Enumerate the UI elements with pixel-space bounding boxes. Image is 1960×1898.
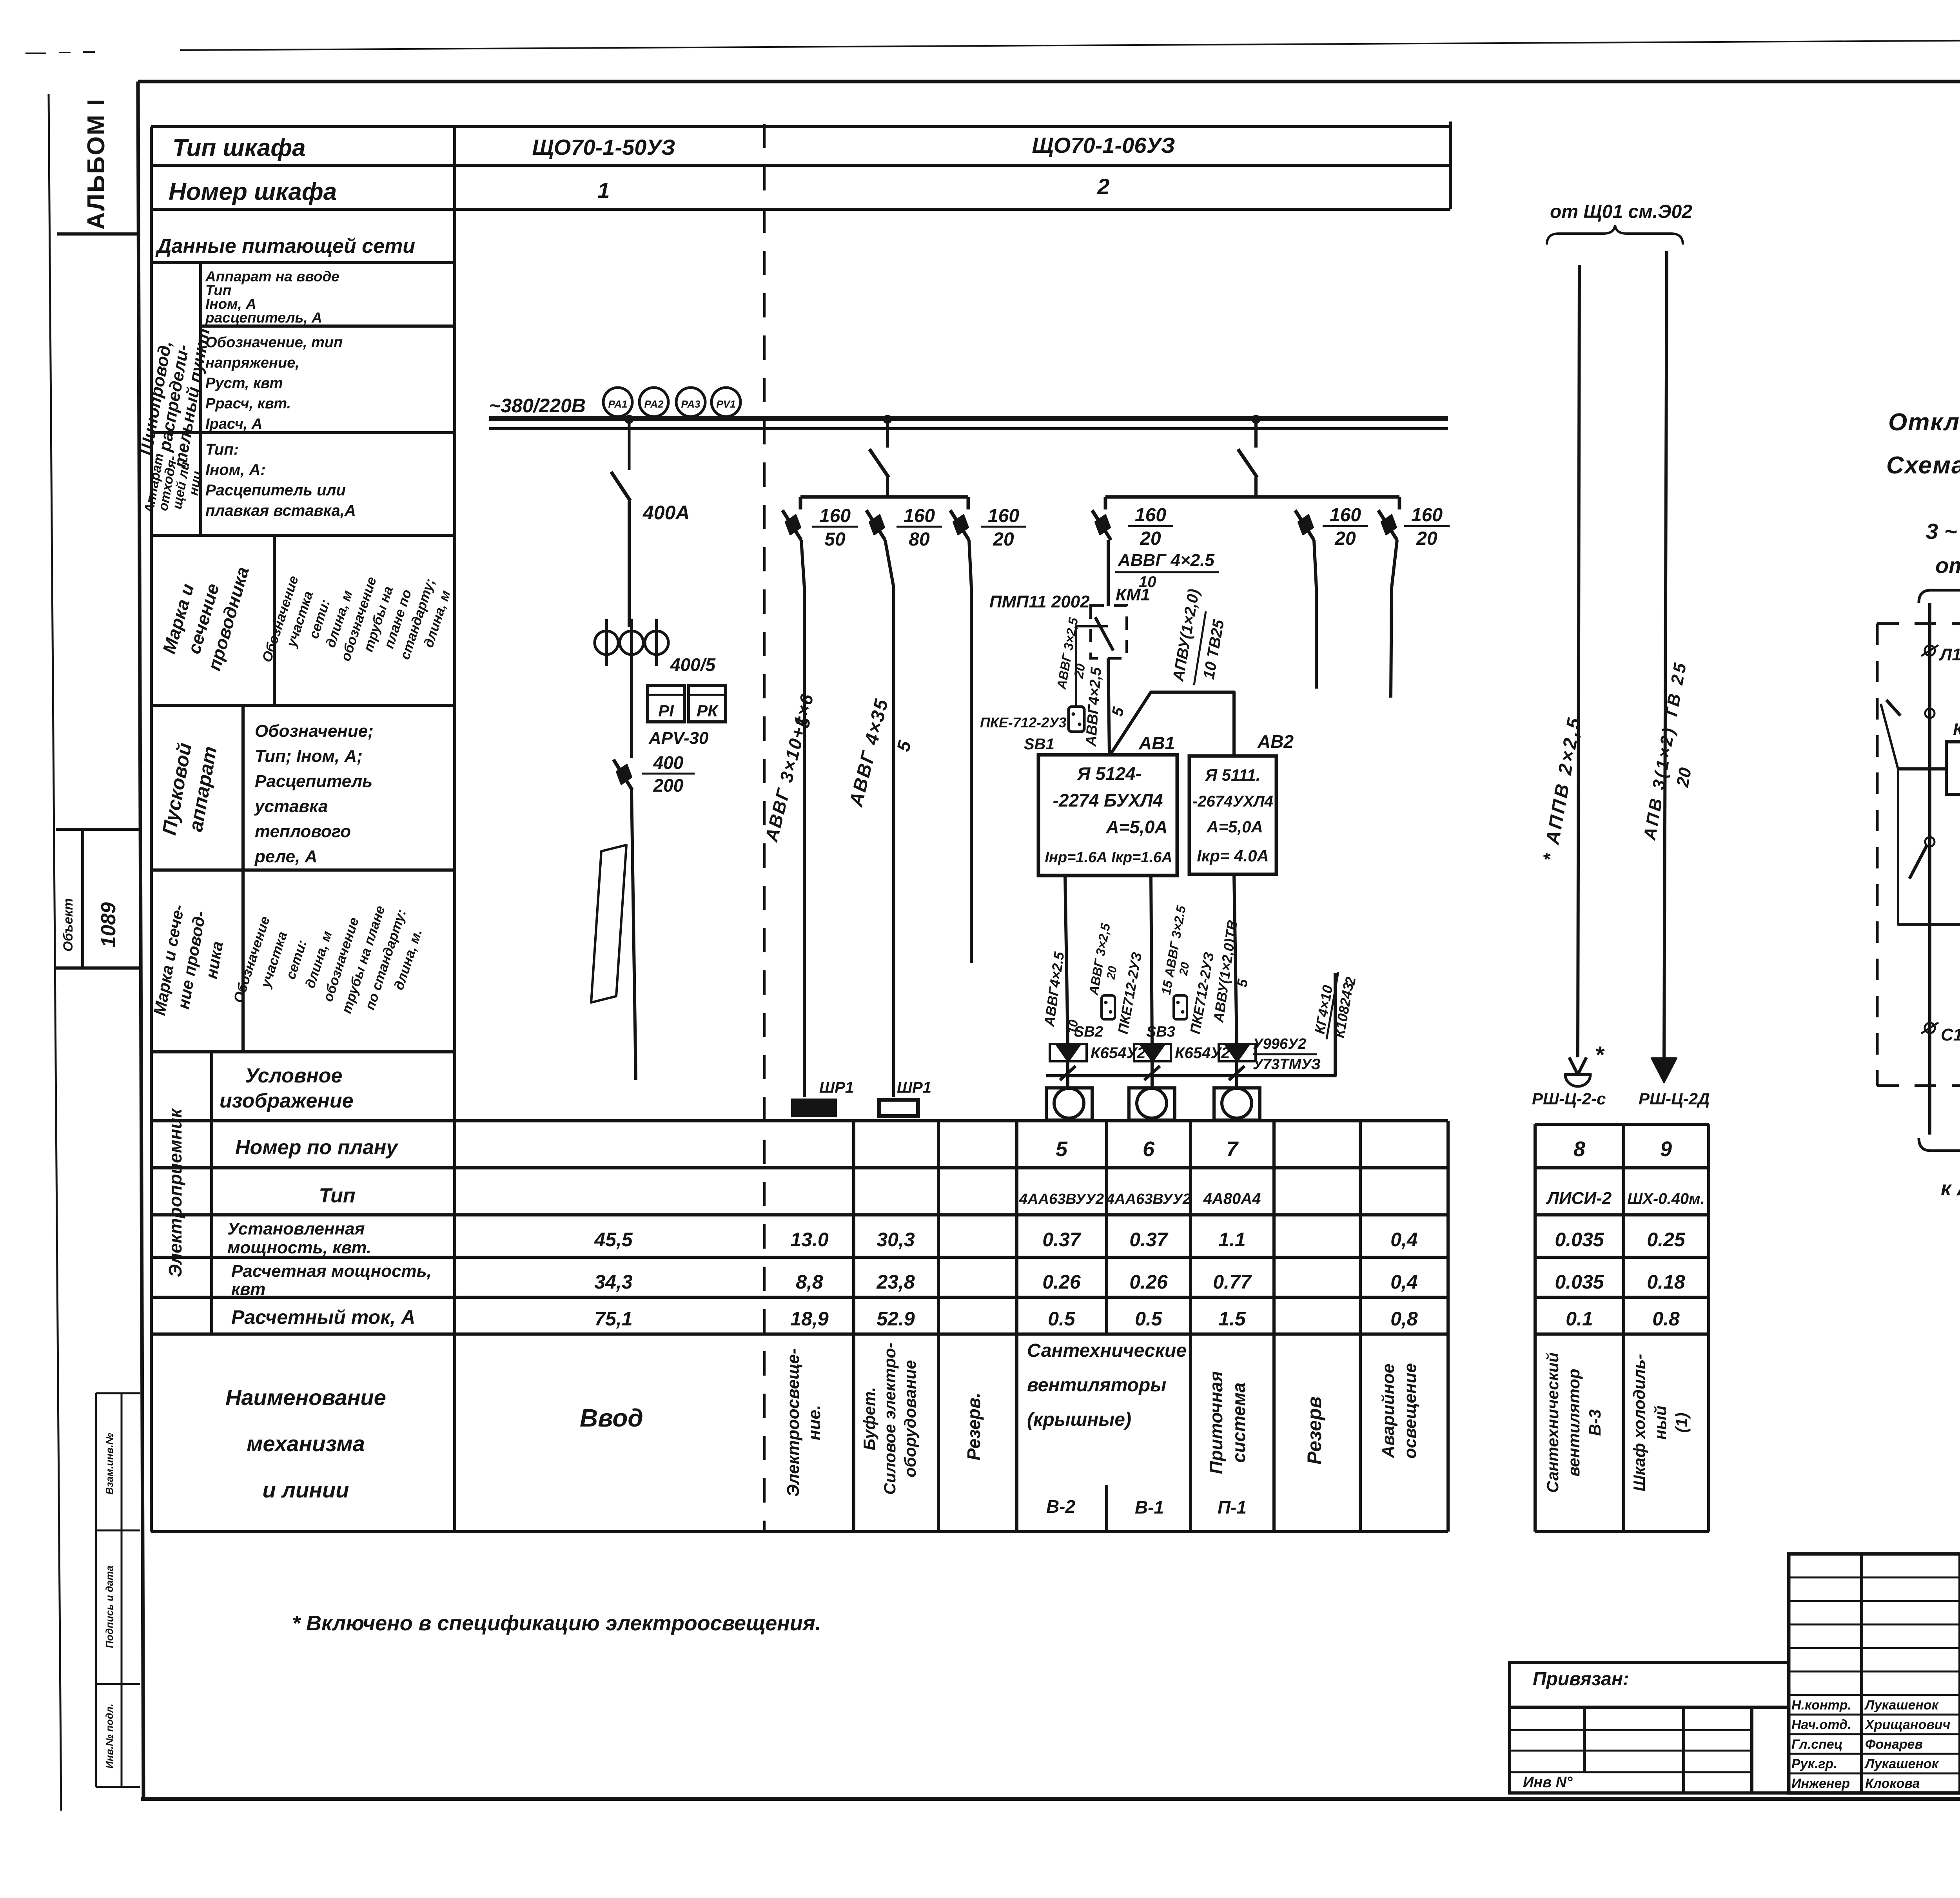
svg-text:160: 160 xyxy=(988,506,1019,526)
svg-text:АВВГ 4×2.5: АВВГ 4×2.5 xyxy=(1118,551,1214,570)
tap to SB1 xyxy=(1076,626,1108,707)
bus junction node group2 xyxy=(1252,415,1260,424)
svg-text:~380/220В: ~380/220В xyxy=(489,395,586,417)
svg-text:Лукашенок: Лукашенок xyxy=(1864,1698,1939,1713)
svg-text:8,8: 8,8 xyxy=(796,1271,823,1293)
svg-text:20: 20 xyxy=(1334,528,1356,549)
svg-text:Iрасч, А: Iрасч, А xyxy=(205,416,262,432)
svg-text:ПМП11 2002: ПМП11 2002 xyxy=(989,592,1090,611)
meter PI box xyxy=(648,685,684,722)
svg-text:Руст, квт: Руст, квт xyxy=(205,375,283,392)
svg-text:ШР1: ШР1 xyxy=(819,1079,854,1096)
svg-text:0.035: 0.035 xyxy=(1555,1271,1604,1293)
svg-text:В-1: В-1 xyxy=(1135,1497,1164,1517)
svg-text:ПКЕ-712-2У3: ПКЕ-712-2У3 xyxy=(980,714,1067,731)
phase line L1 xyxy=(1928,603,1931,1135)
svg-text:SВ1: SВ1 xyxy=(1024,736,1054,753)
feeder line APPV to RSh-Ts-2-s xyxy=(1578,265,1579,1057)
svg-text:Электроосвеще-: Электроосвеще- xyxy=(784,1349,803,1497)
svg-text:РА1: РА1 xyxy=(608,398,628,410)
svg-text:Расчетный ток, А: Расчетный ток, А xyxy=(231,1306,415,1328)
ammeter PA1 xyxy=(603,388,632,417)
svg-text:РI: РI xyxy=(658,702,674,720)
small table 8-9 xyxy=(1535,1123,1709,1126)
svg-text:ШХ-0.40м.: ШХ-0.40м. xyxy=(1627,1190,1705,1207)
svg-text:* Включено в спецификацию: * Включено в спецификацию электроосвещен… xyxy=(292,1612,821,1635)
svg-text:Аварийное: Аварийное xyxy=(1379,1364,1398,1459)
svg-text:освещение: освещение xyxy=(1401,1363,1420,1459)
svg-text:20: 20 xyxy=(1416,528,1437,549)
horizontal link to N xyxy=(1898,767,1946,770)
svg-text:160: 160 xyxy=(1330,505,1361,526)
contact circles row xyxy=(1925,709,1935,718)
terminals L1 L2 L3 N xyxy=(1925,645,1935,656)
svg-text:Инв.№ подл.: Инв.№ подл. xyxy=(103,1704,115,1769)
svg-text:Инв N°: Инв N° xyxy=(1523,1774,1573,1791)
band E marka secheniye provodnika 2 xyxy=(151,1050,455,1053)
group1 feeder breaker xyxy=(886,421,889,448)
wire KM1 to AV1 xyxy=(1108,658,1109,755)
pushbutton SB2 xyxy=(1102,995,1115,1019)
svg-text:23,8: 23,8 xyxy=(876,1271,915,1293)
current transformers 400/5 xyxy=(605,619,608,666)
bus junction node shkaf1 xyxy=(625,415,633,424)
svg-text:Шкаф холодиль-: Шкаф холодиль- xyxy=(1630,1354,1648,1492)
svg-text:К: К xyxy=(1953,720,1960,739)
svg-text:Приточная: Приточная xyxy=(1206,1371,1226,1474)
svg-text:160: 160 xyxy=(819,506,851,526)
svg-text:*: * xyxy=(1595,1042,1605,1068)
group2 feeder breaker xyxy=(1254,421,1258,448)
svg-text:2: 2 xyxy=(1097,174,1109,199)
inv grid xyxy=(1510,1707,1789,1793)
svg-text:5: 5 xyxy=(1056,1137,1068,1161)
svg-text:ный: ный xyxy=(1651,1406,1670,1440)
svg-text:3 ~ 380/220 В: 3 ~ 380/220 В xyxy=(1926,519,1960,544)
svg-text:Номер по плану: Номер по плану xyxy=(235,1136,399,1159)
cable label AVVG 4x2.5 10 xyxy=(1107,540,1110,606)
svg-text:0.8: 0.8 xyxy=(1652,1308,1680,1330)
svg-text:плавкая вставка,А: плавкая вставка,А xyxy=(205,502,356,519)
input breaker QF 400A wire xyxy=(628,421,631,470)
branch breaker reserve 160/20 xyxy=(1312,508,1315,510)
svg-text:4АА63ВУУ2: 4АА63ВУУ2 xyxy=(1106,1191,1191,1207)
svg-text:Н.контр.: Н.контр. xyxy=(1791,1698,1851,1713)
svg-text:С1: С1 xyxy=(1941,1025,1960,1044)
svg-text:уставка: уставка xyxy=(254,797,328,816)
svg-text:0.1: 0.1 xyxy=(1566,1308,1593,1330)
svg-text:(крышные): (крышные) xyxy=(1027,1409,1131,1430)
title block frame xyxy=(1789,1554,1960,1793)
svg-text:20: 20 xyxy=(1140,528,1161,549)
svg-text:-2674УХЛ4: -2674УХЛ4 xyxy=(1192,793,1273,810)
output breaker with thermal flag xyxy=(630,722,633,758)
svg-text:РК: РК xyxy=(697,702,719,720)
svg-text:Я 5124-: Я 5124- xyxy=(1077,763,1142,784)
svg-text:0.26: 0.26 xyxy=(1129,1271,1168,1293)
svg-text:0,4: 0,4 xyxy=(1390,1271,1418,1293)
wire AV1 to motor V-2 xyxy=(1065,876,1068,1043)
svg-text:Рук.гр.: Рук.гр. xyxy=(1791,1757,1837,1771)
svg-text:теплового: теплового xyxy=(255,822,351,841)
svg-text:А=5,0А: А=5,0А xyxy=(1105,817,1167,837)
svg-text:0.5: 0.5 xyxy=(1135,1308,1163,1330)
reserve wire stub xyxy=(969,540,971,963)
motor symbol P-1 xyxy=(1214,1088,1260,1120)
box AV1 xyxy=(1038,755,1177,876)
header table borders xyxy=(151,125,1450,128)
svg-text:Iкр= 4.0А: Iкр= 4.0А xyxy=(1197,847,1269,865)
meter PK box xyxy=(689,685,726,722)
contactor K654U2 no.2 xyxy=(1140,1044,1165,1061)
KM1 dashed enclosure xyxy=(1877,622,1960,625)
svg-text:Тип:: Тип: xyxy=(205,441,239,458)
svg-text:-2274 БУХЛ4: -2274 БУХЛ4 xyxy=(1053,790,1163,810)
svg-text:Хрищанович: Хрищанович xyxy=(1864,1717,1951,1732)
svg-text:Сантехнический: Сантехнический xyxy=(1543,1352,1562,1493)
svg-text:АВ1: АВ1 xyxy=(1138,733,1175,753)
collector wire and riser KG4x10 xyxy=(1046,973,1335,1076)
svg-text:от Щ01 см.Э02: от Щ01 см.Э02 xyxy=(1550,201,1692,222)
wire xyxy=(630,666,633,758)
svg-text:Лукашенок: Лукашенок xyxy=(1864,1757,1939,1771)
svg-text:0.5: 0.5 xyxy=(1048,1308,1076,1330)
svg-text:0,4: 0,4 xyxy=(1390,1229,1418,1251)
svg-text:Тип: Тип xyxy=(319,1184,355,1207)
svg-text:Номер шкафа: Номер шкафа xyxy=(169,178,337,205)
branch breaker 160/50 xyxy=(799,508,802,510)
svg-text:20: 20 xyxy=(1071,662,1088,680)
privyazan box xyxy=(1510,1662,1789,1707)
motor symbol V-2 xyxy=(1046,1088,1092,1120)
svg-text:0.77: 0.77 xyxy=(1213,1271,1252,1293)
main contacts xyxy=(1925,837,1935,847)
svg-text:АЛЬБОМ I: АЛЬБОМ I xyxy=(83,98,110,230)
svg-text:13.0: 13.0 xyxy=(790,1229,829,1251)
svg-text:Установленная: Установленная xyxy=(227,1219,365,1238)
svg-text:ШР1: ШР1 xyxy=(897,1079,931,1096)
terminals C1 C2 C3 xyxy=(1925,1023,1935,1033)
svg-text:от ГРЩ.: от ГРЩ. xyxy=(1935,553,1960,578)
cable run parallelogram xyxy=(591,845,626,1002)
svg-text:6: 6 xyxy=(1143,1137,1155,1161)
svg-text:Условное: Условное xyxy=(245,1064,342,1087)
arrow RSh-Ts-2D xyxy=(1651,1058,1677,1082)
svg-text:SВ3: SВ3 xyxy=(1146,1024,1175,1040)
main bus bars xyxy=(489,416,1448,421)
svg-text:Подпись и дата: Подпись и дата xyxy=(103,1566,115,1648)
svg-text:А=5,0А: А=5,0А xyxy=(1206,818,1263,836)
branch breaker KM feeder 160/20 xyxy=(1109,508,1112,510)
svg-text:Буфет.: Буфет. xyxy=(860,1387,878,1450)
svg-text:200: 200 xyxy=(653,775,684,796)
svg-text:Отключение вентиляции при по: Отключение вентиляции при пожаре xyxy=(1888,409,1960,436)
svg-text:система: система xyxy=(1229,1383,1249,1463)
branch breaker 160/80 xyxy=(883,508,886,510)
svg-text:Фонарев: Фонарев xyxy=(1865,1737,1923,1752)
KM1 contact stroke xyxy=(1095,617,1113,651)
svg-text:ЩО70-1-50УЗ: ЩО70-1-50УЗ xyxy=(532,135,675,160)
band D puskovoy apparat xyxy=(151,868,455,872)
svg-text:ние.: ние. xyxy=(805,1405,824,1440)
svg-text:Тип; Iном, А;: Тип; Iном, А; xyxy=(255,747,363,766)
brace ot GRShch xyxy=(1919,581,1960,603)
svg-text:АРV-30: АРV-30 xyxy=(648,729,709,748)
svg-text:4А80А4: 4А80А4 xyxy=(1203,1190,1261,1207)
svg-text:Схема электрическая принципи: Схема электрическая принципиальная. xyxy=(1886,452,1960,479)
svg-text:В-3: В-3 xyxy=(1586,1409,1604,1436)
svg-text:Данные питающей сети: Данные питающей сети xyxy=(155,235,415,257)
svg-text:Привязан:: Привязан: xyxy=(1533,1669,1629,1690)
svg-text:Наименование: Наименование xyxy=(225,1385,386,1410)
svg-text:52.9: 52.9 xyxy=(877,1308,915,1330)
sheet edge left line xyxy=(49,94,61,1811)
svg-text:Ввод: Ввод xyxy=(580,1404,643,1432)
feeder line APV to RSh-Ts-2D xyxy=(1664,251,1667,1058)
coil K xyxy=(1946,742,1960,794)
pushbutton SB1 box xyxy=(1069,707,1084,732)
svg-text:SВ2: SВ2 xyxy=(1074,1024,1103,1040)
svg-text:ЩО70-1-06УЗ: ЩО70-1-06УЗ xyxy=(1032,133,1175,158)
svg-text:РА3: РА3 xyxy=(681,398,701,410)
bus junction node group1 xyxy=(883,415,892,424)
svg-text:расцепитель, А: расцепитель, А xyxy=(205,310,322,326)
svg-text:оборудование: оборудование xyxy=(901,1360,919,1477)
svg-text:400: 400 xyxy=(653,752,684,773)
svg-text:20: 20 xyxy=(1177,961,1192,977)
svg-text:В-2: В-2 xyxy=(1046,1496,1076,1517)
wire to ShR1-2 xyxy=(885,540,894,1097)
svg-text:1: 1 xyxy=(597,178,610,203)
svg-text:0.035: 0.035 xyxy=(1555,1229,1604,1251)
margin stamp cells xyxy=(95,1393,97,1787)
wire AV1 to motor V-1 xyxy=(1151,876,1152,1043)
svg-text:400/5: 400/5 xyxy=(670,654,716,675)
svg-text:Объект: Объект xyxy=(61,898,76,952)
svg-text:50: 50 xyxy=(824,529,846,550)
svg-text:1.1: 1.1 xyxy=(1218,1229,1246,1251)
svg-text:20: 20 xyxy=(1673,766,1695,789)
svg-text:к АВ1: к АВ1 xyxy=(1941,1177,1960,1200)
svg-text:мощность, квт.: мощность, квт. xyxy=(227,1238,371,1257)
svg-text:Взам.инв.№: Взам.инв.№ xyxy=(103,1433,115,1494)
svg-text:7: 7 xyxy=(1226,1137,1239,1161)
svg-text:К654У2: К654У2 xyxy=(1175,1044,1230,1062)
svg-text:(1): (1) xyxy=(1672,1412,1691,1432)
svg-text:реле, А: реле, А xyxy=(254,847,317,866)
contactor U996U2 xyxy=(1225,1044,1249,1061)
box AV2 xyxy=(1189,756,1276,874)
svg-text:изображение: изображение xyxy=(220,1089,354,1112)
group2 rail xyxy=(1105,495,1399,499)
branch breaker avar 160/20 xyxy=(1395,508,1398,510)
svg-text:80: 80 xyxy=(909,529,930,550)
wire AV1 to AV2 APVU xyxy=(1110,692,1234,756)
svg-text:Электроприемник: Электроприемник xyxy=(165,1108,185,1277)
svg-text:9: 9 xyxy=(1660,1137,1672,1161)
svg-text:У996У2: У996У2 xyxy=(1253,1036,1306,1052)
svg-text:1.5: 1.5 xyxy=(1218,1308,1246,1330)
brace k AV1 xyxy=(1919,1138,1960,1160)
branch breaker 160/20 reserve xyxy=(967,508,970,510)
svg-text:У73ТМУЗ: У73ТМУЗ xyxy=(1253,1056,1321,1073)
svg-text:160: 160 xyxy=(1411,505,1443,526)
svg-text:160: 160 xyxy=(904,506,935,526)
svg-text:30,3: 30,3 xyxy=(877,1229,915,1251)
svg-text:Инженер: Инженер xyxy=(1791,1776,1850,1791)
svg-text:механизма: механизма xyxy=(247,1431,365,1456)
svg-text:Силовое электро-: Силовое электро- xyxy=(880,1343,899,1495)
band B apparat othodyashchey linii xyxy=(151,534,455,537)
svg-text:Нач.отд.: Нач.отд. xyxy=(1791,1717,1851,1732)
svg-text:160: 160 xyxy=(1135,505,1166,526)
svg-text:РШ-Ц-2-с: РШ-Ц-2-с xyxy=(1532,1089,1606,1108)
svg-text:К654У2: К654У2 xyxy=(1091,1044,1146,1062)
svg-text:вентилятор: вентилятор xyxy=(1564,1369,1583,1476)
svg-text:Сантехнические: Сантехнические xyxy=(1027,1340,1187,1361)
svg-text:Обозначение, тип: Обозначение, тип xyxy=(205,334,343,351)
svg-text:0.26: 0.26 xyxy=(1042,1271,1081,1293)
svg-text:Гл.спец: Гл.спец xyxy=(1791,1737,1843,1752)
svg-text:напряжение,: напряжение, xyxy=(205,355,299,371)
svg-text:Тип шкафа: Тип шкафа xyxy=(172,134,306,161)
wire to ShR1-1 xyxy=(801,540,804,1097)
svg-text:0.37: 0.37 xyxy=(1042,1229,1082,1251)
svg-text:вентиляторы: вентиляторы xyxy=(1027,1375,1166,1396)
svg-text:Расчетная мощность,: Расчетная мощность, xyxy=(231,1262,432,1281)
brace xyxy=(1547,225,1683,245)
contact box outline xyxy=(1898,697,1960,925)
svg-text:18,9: 18,9 xyxy=(790,1308,829,1330)
contactor K654U2 no.1 xyxy=(1056,1044,1080,1061)
svg-text:1089: 1089 xyxy=(97,902,120,948)
lower table grid xyxy=(151,1119,1448,1122)
svg-text:Iном, А:: Iном, А: xyxy=(205,461,266,479)
wire to vvod column xyxy=(632,790,636,1080)
svg-text:8: 8 xyxy=(1573,1137,1585,1161)
contactor KM1 dashed box xyxy=(1091,605,1127,658)
svg-text:Резерв: Резерв xyxy=(1303,1396,1325,1465)
svg-text:Резерв.: Резерв. xyxy=(964,1393,984,1461)
svg-text:75,1: 75,1 xyxy=(594,1308,632,1330)
svg-text:Ррасч, квт.: Ррасч, квт. xyxy=(205,395,291,412)
voltmeter PV1 xyxy=(711,388,740,417)
svg-text:20: 20 xyxy=(1104,965,1120,981)
svg-text:Iнр=1.6А Iкр=1.6А: Iнр=1.6А Iкр=1.6А xyxy=(1045,849,1172,866)
svg-text:34,3: 34,3 xyxy=(594,1271,633,1293)
drawing frame xyxy=(138,80,1960,83)
object box xyxy=(56,828,140,831)
band A shinoprovod xyxy=(151,431,455,434)
svg-text:0.25: 0.25 xyxy=(1647,1229,1686,1251)
svg-text:РШ-Ц-2Д: РШ-Ц-2Д xyxy=(1639,1089,1710,1108)
svg-text:РV1: РV1 xyxy=(716,398,735,410)
motor symbol V-1 xyxy=(1129,1088,1175,1120)
cell dannye pitayushchey seti xyxy=(151,261,455,264)
wire AV2 to motor P-1 xyxy=(1234,874,1237,1043)
sheet edge top line xyxy=(180,38,1960,50)
ammeter PA3 xyxy=(676,388,705,417)
group1 rail xyxy=(800,495,968,499)
svg-text:20: 20 xyxy=(993,529,1014,550)
svg-text:0.37: 0.37 xyxy=(1129,1229,1169,1251)
svg-text:КМ1: КМ1 xyxy=(1116,585,1150,604)
band C marka secheniye provodnika xyxy=(151,704,455,707)
lamp symbol RSh-Ts-2-s xyxy=(1569,1057,1586,1075)
svg-text:0.18: 0.18 xyxy=(1647,1271,1685,1293)
svg-text:РА2: РА2 xyxy=(644,398,664,410)
svg-text:Клокова: Клокова xyxy=(1865,1776,1920,1791)
svg-text:Л1: Л1 xyxy=(1939,645,1960,664)
shkaf divider dashed xyxy=(763,124,766,1532)
svg-text:АВ2: АВ2 xyxy=(1257,731,1294,752)
pushbutton SB3 xyxy=(1174,995,1187,1019)
svg-text:45,5: 45,5 xyxy=(594,1229,633,1251)
svg-text:4АА63ВУУ2: 4АА63ВУУ2 xyxy=(1019,1191,1104,1207)
svg-text:Расцепитель: Расцепитель xyxy=(255,772,372,791)
svg-text:Обозначение;: Обозначение; xyxy=(255,721,374,741)
band F elektropriyemnik xyxy=(210,1052,213,1334)
svg-text:П-1: П-1 xyxy=(1218,1497,1247,1517)
svg-text:Я 5111.: Я 5111. xyxy=(1205,766,1260,784)
svg-text:ЛИСИ-2: ЛИСИ-2 xyxy=(1546,1189,1612,1208)
ammeter PA2 xyxy=(639,388,668,417)
svg-text:и линии: и линии xyxy=(262,1477,349,1502)
svg-text:400А: 400А xyxy=(642,502,690,524)
svg-text:0,8: 0,8 xyxy=(1390,1308,1418,1330)
svg-text:Расцепитель или: Расцепитель или xyxy=(205,482,346,499)
